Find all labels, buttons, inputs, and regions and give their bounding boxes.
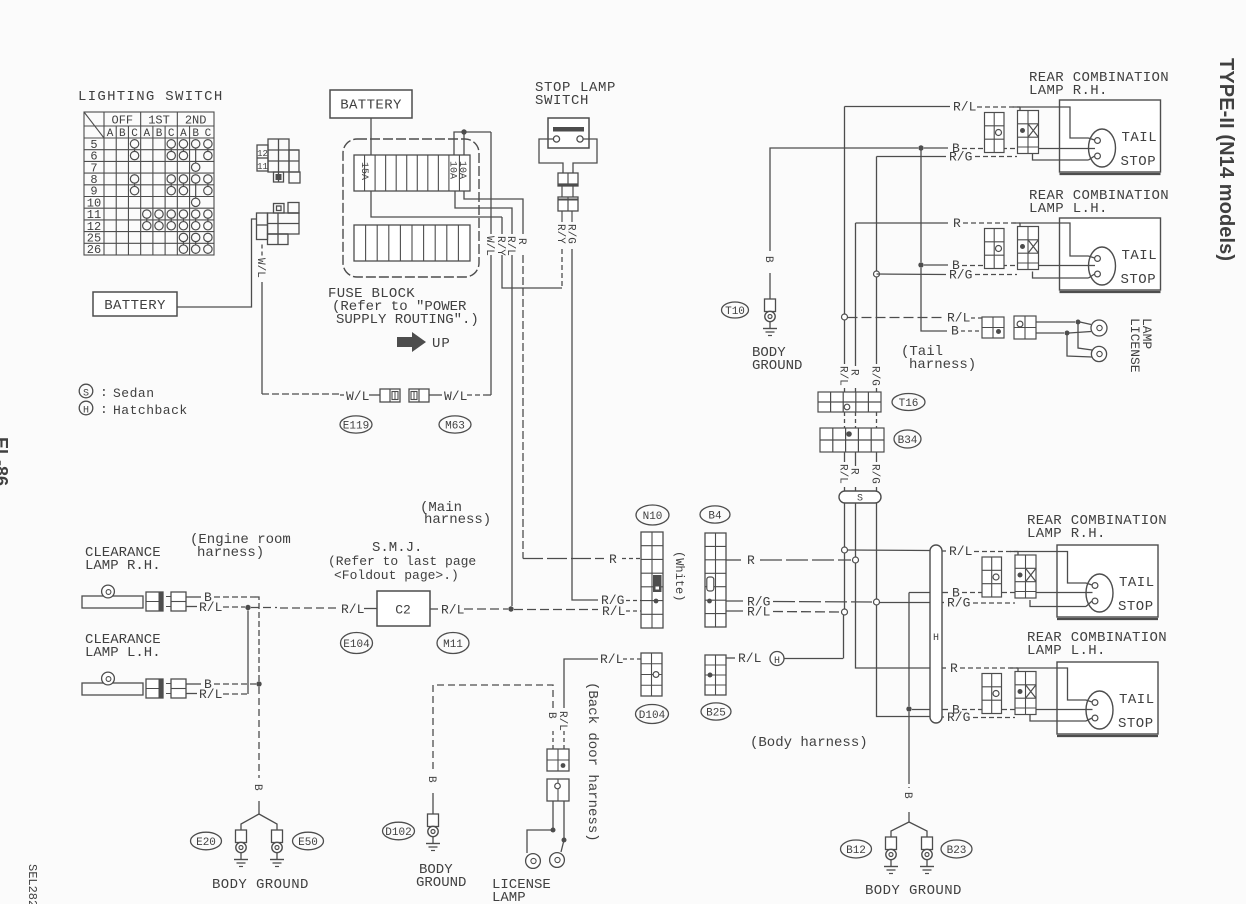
wire B from rear lamps to T10 body ground [770,148,918,251]
svg-text:R/G: R/G [869,464,881,484]
license lamp connector (upper, with pin dot) [547,749,569,771]
label R/L (right of C2) [430,608,438,610]
hatchback variant marker H [770,652,784,666]
wire R/G to rear combination lamp L.H. [877,273,947,276]
svg-text:W/L: W/L [483,236,495,256]
dual filament bulb [1089,247,1116,285]
svg-text:R/L: R/L [738,651,761,666]
wire B to rear combination lamp L.H. [920,148,922,262]
svg-text:SEL282: SEL282 [25,864,39,904]
svg-text:BODY GROUND: BODY GROUND [865,883,962,899]
UP direction arrow [397,332,426,352]
lamp connector (lamp side) [1015,555,1036,598]
license lamp wires [1036,321,1075,323]
wire R/G from B4 to splice [726,600,743,602]
junction: clearance R/L [245,605,250,610]
svg-text:TYPE-II (N14 models): TYPE-II (N14 models) [1215,58,1237,261]
wire B to license lamp (right) [921,268,947,331]
wire B H-bus to lamp R.H. [942,592,948,594]
svg-text:C: C [205,128,212,140]
svg-text:S: S [857,494,863,505]
connector T16 [818,392,881,412]
splice: R from B4 [853,557,859,563]
svg-text:B: B [119,128,126,140]
svg-text:R: R [848,468,860,475]
svg-text:2ND: 2ND [185,114,207,128]
svg-text:BODY GROUND: BODY GROUND [212,877,309,893]
svg-text:R: R [848,369,860,376]
wire: 10A fuse output R/L [455,191,512,234]
lamp internal feed (stop) [1033,154,1089,161]
lamp internal feed (tail) [1010,552,1086,584]
lamp internal feed (ground) [1039,148,1089,150]
wire R/L from clearance lamp L.H. [186,693,197,695]
lamp internal feed (tail) [1010,668,1086,700]
svg-text:E104: E104 [343,639,370,651]
connector id B23 [941,840,972,858]
svg-text:Hatchback: Hatchback [113,403,188,418]
svg-text:R/G: R/G [601,593,624,608]
lamp internal feed (stop) [1030,715,1086,722]
svg-text:GROUND: GROUND [416,875,466,891]
wire R/L to license lamp (right) [848,317,945,319]
wire R/G splice to H bus [880,602,931,604]
svg-text:STOP: STOP [1121,272,1157,288]
svg-text:E50: E50 [298,837,318,849]
connector id D104 [636,705,669,724]
connector id B34 [894,430,921,448]
pin dot in N10 (R/G) [654,599,659,604]
body ground pigtails E20/E50 [241,814,259,830]
svg-text:H: H [774,656,780,667]
svg-text:T10: T10 [725,306,745,318]
wire: 15A fuse output to R/Y [371,191,502,217]
lamp connector (harness side) [985,229,1005,269]
connector id N10 [636,505,669,525]
lamp connector (harness side) [982,674,1002,714]
dual filament bulb [1086,691,1113,729]
legend: H = Hatchback [79,401,93,415]
svg-text:B: B [545,712,557,719]
svg-text:N10: N10 [643,511,663,523]
wire B down to body grounds B12/B23 [908,779,910,788]
lamp internal feed (tail) [1013,107,1089,138]
wire R H-bus to lamp L.H. [942,667,946,669]
battery (left) box [93,292,177,316]
body ground pigtail D102 [428,814,439,827]
svg-text:R/L: R/L [199,600,222,615]
wire B from clearance lamp L.H. [186,683,201,685]
connector id D102 [383,822,415,840]
splice: R/L to hatch bus [842,547,848,553]
svg-text:C2: C2 [395,603,411,618]
svg-text:H: H [933,633,939,644]
svg-text:STOP: STOP [1118,599,1154,615]
wire B from license lamp to D102 ground [552,729,554,749]
lamp connector (harness side) [985,113,1005,153]
wire: lighting switch W/L down to fuse-block row [261,245,263,257]
svg-text:TAIL: TAIL [1119,575,1155,591]
svg-text:STOP: STOP [1118,716,1154,732]
svg-text:TAIL: TAIL [1119,692,1155,708]
svg-text:harness): harness) [197,545,264,561]
wire R to rear combination lamp L.H. [856,222,949,224]
svg-text:M63: M63 [445,420,465,432]
wire R/L (hatchback) from B25 [726,657,735,659]
svg-text:B: B [951,324,959,339]
rear combination lamp box [1057,662,1158,734]
svg-text:D104: D104 [639,710,666,722]
wire R/L below S bus [844,503,846,547]
svg-text:OFF: OFF [112,114,134,128]
license lamp wires to bulbs [552,801,554,830]
svg-text:(Back door harness): (Back door harness) [584,682,600,842]
dual filament bulb [1086,574,1113,612]
clearance lamp R.H. housing and bulb [82,596,143,608]
svg-text:BATTERY: BATTERY [104,298,166,314]
junction: battery feed to 10A fuses and W/L [454,132,491,155]
wire R to N10 [523,558,604,560]
svg-text:10A: 10A [456,161,467,179]
connector id T16 [892,394,925,411]
svg-text:LAMP R.H.: LAMP R.H. [1029,83,1108,99]
stop lamp switch terminals bracket [539,139,563,173]
S.M.J. connector C2 [377,591,430,626]
svg-text:(Body harness): (Body harness) [750,735,868,751]
wire R/G H-bus to lamp R.H. [942,602,944,604]
svg-text:A: A [180,128,187,140]
svg-text:R: R [950,661,958,676]
svg-text:B: B [192,128,199,140]
svg-text:R/G: R/G [565,224,577,244]
lamp internal feed (ground) [1036,592,1086,594]
svg-text:C: C [168,128,175,140]
svg-text:B: B [901,792,913,799]
svg-text:D102: D102 [385,827,411,839]
splice: R/L from B4 [842,609,848,615]
svg-text:B23: B23 [947,845,967,857]
wire B to rear combination lamp R.H. [918,145,923,150]
svg-text:R/L: R/L [341,602,364,617]
connector B4 (white) [705,533,726,627]
svg-text:(Refer to last page: (Refer to last page [328,554,476,569]
svg-text:26: 26 [87,243,101,257]
svg-text:R/L: R/L [837,464,849,484]
svg-text:LAMP L.H.: LAMP L.H. [85,645,161,661]
svg-text:TAIL: TAIL [1122,248,1158,264]
svg-text:STOP: STOP [1121,154,1157,170]
lamp connector (lamp side) [1015,672,1036,715]
svg-text:(White): (White) [672,551,686,601]
svg-text:<Foldout page>.): <Foldout page>.) [334,568,459,583]
svg-text:10A: 10A [447,161,458,179]
svg-text:R/G: R/G [949,150,972,165]
wire R/G from stop lamp switch [571,211,573,222]
svg-text:A: A [107,128,114,140]
body ground pigtail T10 [765,299,776,312]
svg-text:B12: B12 [846,845,866,857]
wire R (tail harness vertical) [855,223,857,366]
svg-text:LAMP: LAMP [1139,318,1154,349]
wire R/G to N10 [572,599,598,600]
connector E119 half [380,389,400,402]
svg-text:R/G: R/G [947,710,970,725]
svg-text:C: C [131,128,138,140]
connector id E104 [341,633,373,654]
wire R/L (tail harness vertical) [844,107,846,315]
wire R/L from clearance lamp R.H. [186,606,197,608]
fuse row (upper) with 15A and 10A fuses [354,155,470,191]
connector id B25 [701,703,731,720]
svg-text:12: 12 [257,149,268,159]
svg-text:R/L: R/L [837,366,849,386]
svg-text:B: B [762,256,774,263]
lamp internal feed (stop) [1033,272,1089,279]
svg-text:R/G: R/G [949,268,972,283]
svg-text:M11: M11 [443,639,463,651]
svg-text:LAMP L.H.: LAMP L.H. [1029,201,1108,217]
wire R/L H-bus to lamp R.H. [942,550,946,552]
connector id B12 [841,840,872,858]
connector D104 (back door harness) [641,653,662,696]
connector id M63 [439,416,471,433]
wire R from B4 to tail-harness splice [726,559,741,561]
rear combination lamp box [1060,100,1161,172]
wire W/L with inline connectors [340,394,344,396]
wire R/L from D104 to license lamp [563,731,565,749]
wire R/L from B4 to splice [726,610,743,612]
wire R/L to rear combination lamp R.H. [845,106,951,108]
license lamp connector (lamp side) [1014,316,1036,339]
svg-text:H: H [83,406,89,417]
svg-text:BATTERY: BATTERY [340,98,402,114]
fuse row (lower) [354,225,470,261]
connector id T10 [722,302,749,318]
svg-text:R: R [747,553,755,568]
lamp internal feed (ground) [1039,265,1089,267]
wire: battery to fuse block [370,118,372,155]
lamp connector (lamp side) [1018,227,1039,270]
wire R/L splice to H bus [848,549,931,552]
wire R/G (tail harness vertical) [876,157,878,272]
svg-text:S: S [83,389,89,400]
svg-text:11: 11 [257,162,268,172]
splice: license R/L [842,314,848,320]
connector id E20 [191,832,222,850]
wire B for rear lamps (right) [908,593,910,707]
svg-text:T16: T16 [899,398,919,410]
connector B34 [820,428,884,452]
wire: battery feed to lighting switch [177,219,257,307]
stop lamp switch connector (upper) [558,173,578,186]
clearance lamp L.H. connector halves [146,679,163,698]
svg-text:W/L: W/L [444,389,467,404]
lamp internal feed (stop) [1030,600,1086,607]
svg-text:R/G: R/G [869,366,881,386]
svg-text:R/L: R/L [949,544,972,559]
svg-text:EL-86: EL-86 [0,437,11,486]
svg-text:UP: UP [432,336,451,352]
wire W/L from fuse area down [490,132,492,234]
svg-text:E20: E20 [196,837,216,849]
hatchback harness bus H [930,545,942,723]
wire R/G below S bus [876,503,878,599]
wire B H-bus to lamp L.H. [942,709,948,711]
svg-text:W/L: W/L [254,258,266,278]
lamp connector (harness side) [982,557,1002,597]
svg-text::: : [100,385,108,400]
stop lamp switch body [548,118,589,148]
svg-text:E119: E119 [343,420,369,432]
svg-text:R: R [953,216,961,231]
lamp internal feed (ground) [1036,709,1086,711]
sedan harness bus S [839,491,881,503]
svg-text:B25: B25 [706,707,726,719]
clearance lamp R.H. connector halves [146,592,163,611]
svg-text:R: R [609,552,617,567]
lighting switch connector face (lower) [257,203,300,245]
connector id B4 [700,506,730,523]
wire R/G to rear combination lamp R.H. [877,156,947,158]
svg-text:B: B [156,128,163,140]
dual filament bulb [1089,129,1116,167]
lighting switch continuity table [84,112,214,255]
svg-text:R/L: R/L [199,687,222,702]
wires between T16 and B34 [844,412,846,428]
connector id E119 [340,416,372,433]
svg-text:Sedan: Sedan [113,386,155,401]
svg-text:B: B [425,776,437,783]
lighting switch connector face (upper) [257,139,300,183]
svg-text:R: R [515,238,527,245]
svg-text:harness): harness) [424,512,491,528]
svg-text:harness): harness) [909,357,976,373]
rear combination lamp box [1057,545,1158,617]
wire B down to body grounds E20/E50 [258,687,260,778]
body ground pigtails B12/B23 [891,822,909,837]
junction: R/L from fuse joins R/L main run [508,606,513,611]
svg-text:LAMP: LAMP [492,890,526,904]
svg-text:1ST: 1ST [148,114,170,128]
clearance lamp L.H. housing and bulb [82,683,143,695]
svg-text:TAIL: TAIL [1122,130,1158,146]
junction: clearance B wires [256,681,261,686]
wires B34 to S bus with labels [844,452,846,462]
connector B25 (body harness) [705,655,726,695]
battery (top) box [330,90,412,118]
svg-text:W/L: W/L [346,389,369,404]
svg-text:R/L: R/L [504,236,516,256]
wire R below S bus [855,503,857,557]
svg-text::: : [100,402,108,417]
svg-text:LAMP R.H.: LAMP R.H. [85,558,161,574]
fuse block outline [343,139,479,277]
lamp connector (lamp side) [1018,111,1039,154]
svg-text:LAMP R.H.: LAMP R.H. [1027,526,1106,542]
svg-text:R/L: R/L [953,100,976,115]
svg-text:R/L: R/L [747,605,770,620]
svg-text:R/L: R/L [441,603,464,618]
wire: 10A fuse output R [464,191,523,234]
wire R/Y from stop lamp switch [561,211,563,222]
svg-text:B: B [251,784,263,791]
license lamp connector (harness side) [982,317,1004,338]
svg-text:LIGHTING SWITCH: LIGHTING SWITCH [78,89,224,105]
legend: S = Sedan [79,384,93,398]
license lamp bulb 1 [526,854,541,869]
svg-text:B4: B4 [708,510,722,522]
svg-text:SUPPLY ROUTING".): SUPPLY ROUTING".) [336,312,479,328]
svg-text:GROUND: GROUND [752,358,802,374]
svg-text:R/Y: R/Y [554,224,566,244]
svg-text:B34: B34 [898,435,918,447]
wire B from clearance lamp R.H. [186,596,201,598]
svg-text:R/L: R/L [600,652,623,667]
splice: L.H. R/G [874,271,880,277]
license lamp connector (lower, with pin circle) [547,779,569,801]
svg-text:15A: 15A [358,162,369,180]
lamp internal feed (tail) [1013,223,1089,256]
stop lamp switch connector (lower) [558,197,578,211]
wire R/G H-bus to lamp L.H. [942,716,944,718]
rear combination lamp box [1060,218,1161,290]
svg-text:R/G: R/G [947,596,970,611]
license lamp bulb 1 [1091,320,1107,336]
switch contact circles [130,140,212,254]
connector M63 half [409,389,429,402]
svg-text:A: A [143,128,150,140]
connector N10 (white) [641,532,663,628]
connector id E50 [293,832,324,850]
connector id M11 [437,633,469,654]
svg-text:R/L: R/L [556,711,568,731]
svg-text:SWITCH: SWITCH [535,93,589,109]
svg-text:LAMP L.H.: LAMP L.H. [1027,643,1106,659]
license lamp bulb 2 [550,853,565,868]
license lamp bulb 2 [1091,346,1106,361]
splice: R/G from B4 [874,599,880,605]
